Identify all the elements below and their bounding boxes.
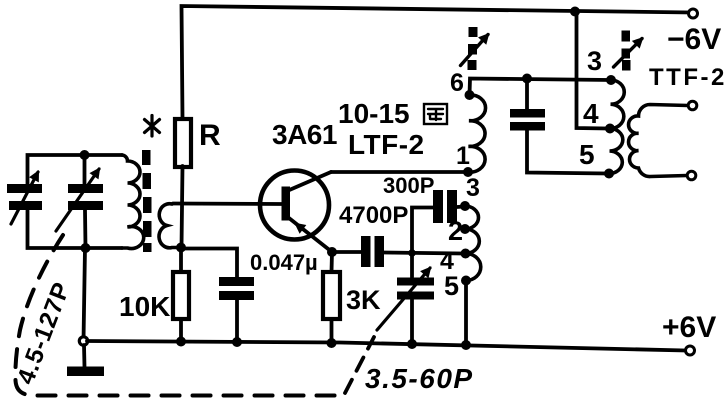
adjustable core arrow T1 — [468, 27, 478, 70]
transformer T1 upper winding — [468, 95, 486, 172]
node T1 pin5 bus — [461, 340, 471, 350]
variable capacitor C1 arrow — [11, 172, 38, 224]
node T2 pin5 — [604, 169, 614, 179]
svg-text:3A61: 3A61 — [272, 119, 337, 150]
wire bias to 10K — [179, 248, 183, 273]
node T2 pin4 — [605, 124, 615, 134]
terminal -6V — [689, 9, 698, 18]
capacitor C5 300P plates — [433, 190, 457, 223]
svg-text:300P: 300P — [383, 173, 434, 198]
svg-text:3: 3 — [587, 46, 602, 76]
node tank bottom — [81, 243, 91, 253]
wire C7 bottom to T2 pin5 — [527, 131, 608, 174]
svg-text:3K: 3K — [346, 285, 381, 315]
svg-text:10K: 10K — [119, 291, 170, 322]
svg-text:−6V: −6V — [667, 23, 721, 56]
transistor Q1 emitter lead — [287, 217, 332, 253]
node T1 pin6 — [465, 90, 475, 100]
node T1 pin4 — [461, 249, 471, 259]
node T2 pin3 — [606, 75, 616, 85]
svg-text:TTF-2: TTF-2 — [649, 64, 727, 91]
node 10K bus — [176, 337, 186, 347]
node T1 pin3 — [460, 201, 470, 211]
node trimmer bus — [407, 339, 417, 349]
svg-text:6: 6 — [450, 69, 464, 97]
wire riser to 300P — [412, 208, 433, 254]
ground bar — [67, 367, 104, 377]
glyph turns box — [424, 104, 447, 124]
node bias junction — [176, 243, 186, 253]
svg-text:4: 4 — [583, 98, 599, 129]
wire bottom bus — [87, 341, 686, 351]
transistor Q1 emitter arrow — [296, 224, 309, 234]
svg-text:3: 3 — [466, 174, 480, 202]
capacitor C7 plates — [510, 109, 545, 131]
wire tank bottom — [28, 211, 123, 249]
svg-text:LTF-2: LTF-2 — [348, 129, 425, 160]
node top bus junction — [570, 7, 580, 17]
svg-text:5: 5 — [444, 271, 459, 301]
svg-text:10-15: 10-15 — [338, 98, 410, 129]
wire top bus — [182, 6, 693, 118]
svg-text:5: 5 — [579, 139, 595, 170]
wire base — [173, 202, 282, 206]
wire tank to ground bus — [84, 248, 86, 341]
transformer T1 lower winding — [465, 206, 481, 281]
variable capacitor C1 plates — [7, 184, 42, 210]
resistor 3K — [323, 272, 340, 319]
resistor R1 — [175, 119, 191, 167]
node riser junction — [408, 249, 416, 257]
svg-text:3.5-60P: 3.5-60P — [365, 363, 474, 394]
node tank top — [80, 150, 90, 160]
node 3K bus — [327, 338, 337, 348]
svg-text:+6V: +6V — [662, 311, 716, 344]
node T1 pin1 — [463, 167, 473, 177]
wire C3 bottom — [235, 300, 239, 342]
inductor L1 primary — [122, 155, 144, 249]
ground stub — [82, 345, 86, 367]
svg-text:4700P: 4700P — [339, 202, 408, 229]
trimmer C6 plates — [397, 278, 434, 300]
node T1 pin5 — [461, 276, 471, 286]
wire trimmer bottom — [410, 300, 414, 345]
variable capacitor C2 plates — [68, 184, 103, 210]
wire bias to C3 — [181, 249, 237, 278]
wire collector to pin1 — [331, 170, 468, 174]
svg-text:4.5-127P: 4.5-127P — [12, 278, 76, 388]
node C3 bus — [232, 337, 242, 347]
adjustable core arrow T2 — [622, 31, 631, 71]
dashed gang link — [15, 235, 340, 396]
transistor Q1 base bar — [282, 187, 291, 221]
transformer T2 secondary winding — [629, 105, 688, 177]
terminal T2 sec top — [688, 101, 697, 110]
label asterisk — [145, 116, 160, 137]
wire pin6 to T2 pin3 — [470, 79, 612, 96]
terminal +6V — [686, 346, 695, 355]
trimmer C6 arrow — [377, 268, 430, 330]
inductor L1 secondary — [159, 204, 181, 248]
resistor 10K — [173, 272, 189, 319]
core L1 dashes — [142, 150, 152, 252]
capacitor C4 4700P plates — [361, 236, 384, 267]
transistor Q1 circle — [260, 171, 329, 240]
wire riser to trimmer — [410, 253, 414, 277]
wire tank top — [28, 155, 123, 184]
capacitor C3 0.047u plates — [219, 277, 254, 300]
wire T1 pin5 to bus — [464, 281, 468, 346]
wire C2 risers — [85, 155, 86, 248]
svg-text:2: 2 — [448, 216, 463, 246]
wire R bottom to bias node — [182, 166, 183, 248]
wire 3K bottom — [330, 319, 334, 343]
svg-text:0.047µ: 0.047µ — [250, 250, 318, 275]
node T1 pin2 — [460, 224, 470, 234]
variable capacitor C2 arrow — [56, 169, 99, 231]
wire C7 top stub — [525, 79, 529, 110]
wire emitter to C4 — [332, 250, 361, 254]
svg-text:1: 1 — [456, 142, 470, 170]
wire -6V rail to TTF-2 pin 4 — [577, 12, 609, 129]
dashed arrow to 3.5-60P — [345, 337, 374, 393]
wire 10K bottom — [179, 319, 183, 342]
wire 300P to pin3 — [457, 205, 464, 209]
transformer T2 primary winding — [609, 80, 624, 174]
transistor Q1 collector lead — [287, 172, 331, 191]
svg-text:R: R — [199, 119, 221, 152]
node cap branch — [522, 74, 532, 84]
terminal T2 sec bottom — [687, 171, 696, 180]
wire C4 to pin4 — [384, 253, 463, 254]
wire emitter to 3K — [330, 252, 334, 272]
node emitter junction — [327, 247, 337, 257]
node bus left — [79, 337, 87, 345]
